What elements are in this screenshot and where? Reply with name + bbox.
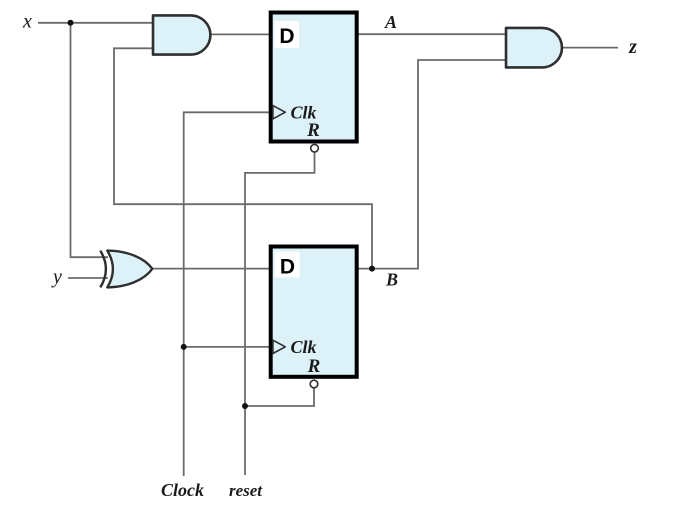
wire reset branch to FF2 R bubble bbox=[245, 388, 314, 406]
node Clock junction dot bbox=[181, 344, 187, 350]
svg-text:z: z bbox=[628, 36, 637, 58]
svg-text:y: y bbox=[51, 266, 62, 288]
wire FF2 Q node B to AND2 bottom input bbox=[358, 60, 506, 269]
node junction dot on x wire bbox=[68, 20, 74, 26]
flip-flop U1 D label box bbox=[274, 21, 299, 48]
wire FF1 Q output node A to AND2 top input bbox=[358, 33, 506, 35]
svg-text:A: A bbox=[384, 12, 397, 32]
svg-text:D: D bbox=[280, 256, 295, 279]
flip-flop U2 D label box bbox=[275, 252, 300, 278]
wire Clock vertical to FF1 Clk bbox=[184, 112, 271, 476]
wire B feedback to AND1 bottom input bbox=[114, 48, 372, 268]
svg-text:R: R bbox=[306, 120, 320, 141]
and-gate G1 top-left bbox=[153, 15, 210, 54]
xor-gate G2 body bbox=[107, 251, 152, 288]
wire reset vertical to FF1 R bubble bbox=[245, 152, 315, 475]
svg-text:Clk: Clk bbox=[291, 337, 317, 357]
wire AND1 output to FF1 D bbox=[209, 33, 271, 35]
svg-text:reset: reset bbox=[229, 481, 263, 500]
svg-text:B: B bbox=[385, 270, 398, 290]
xor-gate G2 input arc bbox=[100, 251, 106, 288]
wire y input lead bbox=[68, 277, 108, 279]
node B junction dot bbox=[369, 266, 375, 272]
wire AND2 output to z bbox=[562, 47, 619, 49]
svg-text:x: x bbox=[22, 11, 32, 33]
svg-text:R: R bbox=[307, 356, 321, 377]
and-gate G3 output bbox=[506, 28, 562, 68]
wire x input lead bbox=[38, 22, 153, 24]
flip-flop U2 box bbox=[271, 247, 357, 377]
wire x vertical to XOR top input bbox=[71, 23, 109, 257]
flip-flop U2 Clk triangle pin bbox=[273, 340, 285, 353]
svg-text:Clock: Clock bbox=[161, 480, 204, 500]
flip-flop U1 box bbox=[271, 13, 357, 142]
wire XOR output to FF2 D bbox=[152, 268, 271, 270]
wire Clock branch to FF2 Clk bbox=[184, 346, 271, 348]
flip-flop U1 R bubble bbox=[311, 144, 319, 152]
flip-flop U1 Clk triangle pin bbox=[273, 106, 285, 119]
svg-text:D: D bbox=[279, 25, 294, 48]
node reset junction dot bbox=[242, 403, 248, 409]
flip-flop U2 R bubble bbox=[310, 380, 318, 388]
